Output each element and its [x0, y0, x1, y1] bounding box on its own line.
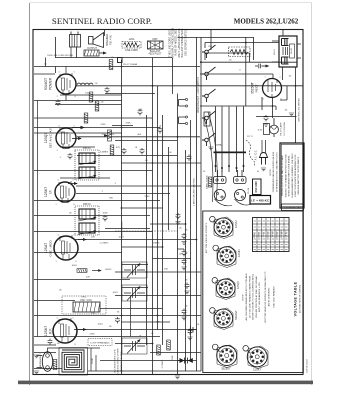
svg-text:OSC.: OSC. — [81, 297, 87, 299]
wavemagnet plug J1 — [37, 348, 101, 371]
IF transformer T3 (1st IF) — [75, 150, 99, 180]
wire power tube top — [34, 47, 71, 74]
svg-text:50L6GT: 50L6GT — [44, 78, 48, 90]
tube V4 50L6GT power output — [56, 73, 76, 95]
svg-text:1: 1 — [223, 219, 224, 221]
ground under C12 — [187, 337, 192, 340]
wire curves to gang — [204, 112, 217, 202]
svg-text:SENTINEL RADIO CORP.: SENTINEL RADIO CORP. — [52, 16, 152, 26]
svg-text:OTHERWISE NOTED. SEE PARTS LIS: OTHERWISE NOTED. SEE PARTS LIST. — [275, 151, 278, 192]
resistor R8 — [95, 101, 99, 111]
svg-text:A.C.- D.C.: A.C.- D.C. — [255, 149, 258, 160]
svg-text:2: 2 — [230, 314, 231, 316]
svg-text:THIS LINE CORD SPLINE: THIS LINE CORD SPLINE — [47, 55, 73, 57]
resistor R9 — [109, 60, 113, 70]
svg-text:117 V.: 117 V. — [247, 136, 253, 138]
svg-text:8: 8 — [73, 204, 74, 206]
capacitor C4 — [68, 153, 73, 159]
svg-text:6: 6 — [217, 293, 218, 295]
svg-text:PILOT LAMP: PILOT LAMP — [280, 122, 283, 135]
chassis label box — [282, 204, 304, 211]
wire antenna section — [34, 353, 201, 372]
wire vertical right section — [211, 30, 296, 177]
volume control R2 — [104, 130, 112, 141]
svg-text:15K: 15K — [164, 269, 168, 271]
svg-text:22K: 22K — [91, 313, 95, 315]
svg-text:117 V. AC LINE. READINGS TAKEN: 117 V. AC LINE. READINGS TAKEN FROM — [248, 276, 251, 319]
svg-text:6: 6 — [215, 232, 216, 234]
svg-text:MODELS 262,LU262: MODELS 262,LU262 — [234, 18, 299, 26]
svg-text:1: 1 — [56, 150, 57, 152]
terminal block A — [118, 58, 123, 63]
wire cathode row — [60, 94, 122, 96]
gang trimmer T6 assembly — [234, 177, 253, 206]
svg-text:8: 8 — [248, 352, 249, 354]
svg-text:(BOTTOM VIEW OF CHASSIS): (BOTTOM VIEW OF CHASSIS) — [299, 285, 302, 314]
socket panel border — [203, 211, 303, 373]
resistor R3 — [157, 345, 161, 355]
svg-text:35Z5GT: 35Z5GT — [221, 367, 231, 371]
socket pin numbers — [215, 219, 266, 364]
svg-text:1: 1 — [226, 346, 227, 348]
svg-text:BOTTOM VIEWS OF SOCKETS SHOWN: BOTTOM VIEWS OF SOCKETS SHOWN ONLY TO — [265, 271, 267, 322]
svg-text:12SK7: 12SK7 — [237, 249, 241, 257]
svg-text:I.F.: I.F. — [49, 190, 53, 194]
ground under C13 — [175, 222, 180, 225]
svg-text:VOL. 1 MEG: VOL. 1 MEG — [102, 134, 115, 136]
svg-text:47K: 47K — [156, 321, 160, 323]
AVC bus dashed — [115, 230, 177, 232]
IF transformer T4 (2nd IF) — [75, 206, 99, 235]
svg-text:4: 4 — [230, 323, 231, 325]
text parts column bottom — [114, 348, 123, 374]
electrolytic C27 output filter — [178, 358, 193, 364]
svg-text:POWER: POWER — [49, 77, 53, 90]
svg-text:12SA7: 12SA7 — [234, 220, 238, 228]
capacitor C16 — [255, 64, 269, 69]
svg-text:8: 8 — [75, 261, 76, 263]
junction dots various — [121, 42, 297, 372]
svg-text:SEE SERVICE NOTES: SEE SERVICE NOTES — [184, 30, 187, 56]
output transformer T2 — [70, 32, 81, 48]
svg-text:NOTE:: NOTE: — [270, 168, 272, 175]
note text block top (line cord notes) — [168, 28, 187, 58]
svg-text:12SA7 . . .: 12SA7 . . . — [253, 229, 256, 238]
svg-text:L26A: L26A — [129, 38, 135, 41]
svg-text:470K: 470K — [100, 124, 106, 126]
wire heater string top — [34, 58, 200, 67]
capacitor C23 — [187, 155, 192, 161]
svg-text:4: 4 — [234, 261, 235, 263]
resistor R7 cathode — [89, 92, 93, 102]
svg-text:8: 8 — [215, 223, 216, 225]
svg-text:35Z5GT: 35Z5GT — [272, 230, 274, 238]
wire det row — [105, 228, 150, 230]
svg-text:R.F.: R.F. — [49, 328, 53, 334]
svg-text:PLATE V: PLATE V — [276, 229, 279, 237]
svg-text:5: 5 — [72, 180, 73, 182]
ground bottom-2 — [34, 371, 39, 374]
voltage table header text — [253, 229, 288, 238]
arrow signal V1 — [74, 239, 86, 241]
ground under C10 — [184, 291, 189, 294]
svg-text:12SQ7 .: 12SQ7 . — [263, 230, 265, 237]
svg-text:RECT.: RECT. — [255, 84, 259, 93]
svg-text:UNLESS NOTED OTHER: UNLESS NOTED OTHER — [118, 348, 120, 374]
svg-text:8: 8 — [217, 284, 218, 286]
resistor R14 — [84, 113, 88, 123]
wire vertical stubs top — [46, 30, 105, 101]
electrolytic filter C20 multi-section — [272, 36, 301, 67]
wire loop right verticals — [91, 348, 96, 371]
arrow AVC to V3 — [72, 138, 81, 140]
tube V5 12SK7 RF amplifier — [53, 318, 77, 343]
tube V6 35Z5GT rectifier — [263, 79, 282, 98]
svg-text:25-7A: 25-7A — [247, 188, 250, 194]
svg-text:6: 6 — [248, 362, 249, 364]
svg-text:CAPACITY IN MFD: CAPACITY IN MFD — [120, 351, 123, 370]
tube socket S2 12SK7 — [213, 245, 236, 267]
svg-text:X AC VOLT READING: X AC VOLT READING — [273, 286, 276, 308]
capacitor C25 — [103, 215, 108, 221]
svg-text:3: 3 — [262, 99, 263, 101]
capacitor C26 cathode bypass — [56, 100, 61, 106]
svg-text:470K: 470K — [172, 355, 174, 361]
svg-text:.0001: .0001 — [71, 265, 77, 267]
svg-text:INPUT. ALL READINGS ± 20%: INPUT. ALL READINGS ± 20% — [258, 282, 261, 312]
capacitor C21 — [122, 148, 127, 154]
svg-text:1: 1 — [257, 348, 258, 350]
svg-text:2: 2 — [234, 351, 235, 353]
resistor R13 loop series — [53, 360, 57, 370]
resistor R12 — [110, 145, 114, 155]
svg-text:8: 8 — [74, 96, 75, 98]
svg-text:.0001: .0001 — [97, 324, 103, 326]
B minus bus — [37, 101, 39, 337]
svg-text:WAVEMAGNET: WAVEMAGNET — [39, 353, 42, 369]
svg-text:CHASSIS AND PART NUMBERS. USE: CHASSIS AND PART NUMBERS. USE ONLY — [291, 153, 294, 198]
svg-text:LOOP: LOOP — [92, 357, 94, 364]
wire IF section — [34, 178, 201, 216]
svg-text:4: 4 — [265, 362, 266, 364]
ballast resistor R11 — [148, 41, 164, 49]
ground bottom-1 — [34, 355, 39, 358]
loop antenna L1 spiral — [62, 350, 84, 372]
loop antenna L1 frame — [59, 348, 88, 376]
svg-text:EXACT DUPLICATE REPLACEMENTS O: EXACT DUPLICATE REPLACEMENTS OF — [294, 154, 297, 197]
svg-text:2: 2 — [279, 77, 280, 79]
svg-text:2: 2 — [230, 223, 231, 225]
svg-text:455 KC: 455 KC — [83, 147, 91, 150]
svg-text:4: 4 — [230, 232, 231, 234]
paper noise — [30, 4, 311, 380]
misc small value labels scattered — [47, 55, 259, 369]
svg-text:BOTTOM VIEW OF SOCKETS: BOTTOM VIEW OF SOCKETS — [206, 222, 208, 253]
svg-text:CATH. V: CATH. V — [285, 230, 288, 238]
svg-text:LINE CORD: LINE CORD — [125, 49, 138, 52]
svg-text:4: 4 — [233, 293, 234, 295]
svg-text:8: 8 — [215, 314, 216, 316]
svg-text:47K: 47K — [116, 147, 120, 149]
svg-text:2: 2 — [233, 284, 234, 286]
voltage table cell figures — [254, 221, 288, 250]
svg-text:12SQ7: 12SQ7 — [44, 133, 48, 144]
ground switch — [208, 147, 213, 150]
tube V2 12SK7 IF amplifier — [55, 181, 75, 203]
svg-text:2.2 MEG: 2.2 MEG — [162, 359, 164, 368]
svg-text:NOTE:: NOTE: — [243, 293, 245, 300]
svg-text:12SA7: 12SA7 — [44, 243, 48, 253]
oscillator coil L4 — [73, 302, 100, 312]
svg-text:WHEN ORDERING PARTS GIVE MODEL: WHEN ORDERING PARTS GIVE MODEL, — [288, 154, 291, 196]
svg-text:DET.-A.V.C.-A.F.: DET.-A.V.C.-A.F. — [49, 128, 53, 149]
svg-text:1: 1 — [56, 96, 57, 98]
svg-text:LOOP TERMINALS: LOOP TERMINALS — [90, 341, 110, 344]
svg-text:5: 5 — [72, 318, 73, 320]
svg-text:1 MEG: 1 MEG — [153, 243, 160, 245]
svg-text:P.M. 4 IN.: P.M. 4 IN. — [110, 35, 113, 46]
arrow output coupling — [72, 127, 84, 129]
tube socket S1 12SA7 — [210, 216, 233, 238]
wavemagnet switch contacts mid — [179, 98, 188, 124]
capacitor C10 bypass — [185, 283, 190, 289]
tube socket S4 50L6GT — [210, 308, 233, 330]
svg-text:4: 4 — [57, 180, 58, 182]
inductor L6 plate choke — [77, 83, 93, 85]
notes box right bordered — [280, 143, 304, 208]
svg-text:220K: 220K — [89, 334, 95, 336]
svg-text:ALL RESISTORS 1/2 W: ALL RESISTORS 1/2 W — [114, 348, 117, 372]
capacitor C14 — [264, 115, 269, 121]
svg-text:220K: 220K — [144, 196, 150, 198]
capacitor C5 — [158, 127, 163, 133]
capacitor C28 padder — [115, 317, 120, 323]
ground near can — [289, 113, 294, 116]
oscillator coil enclosure — [62, 296, 106, 314]
svg-text:12SQ7: 12SQ7 — [236, 280, 240, 289]
wire converter section — [34, 224, 201, 296]
svg-text:100K: 100K — [102, 213, 108, 215]
resistor R6 osc grid — [77, 269, 87, 273]
resistor R5 — [208, 177, 212, 187]
IF alignment label box — [250, 179, 271, 204]
svg-text:8: 8 — [218, 351, 219, 353]
wire vertical main buses — [122, 37, 202, 374]
capacitor C12 bypass — [188, 329, 193, 335]
svg-text:2: 2 — [234, 252, 235, 254]
svg-text:AID IN CHECKING: AID IN CHECKING — [267, 287, 270, 306]
tube pin number texts — [54, 72, 281, 347]
svg-text:1 MEG VOLUME CONTROL: 1 MEG VOLUME CONTROL — [193, 177, 195, 206]
tube V1 12SA7 osc-mod converter — [54, 235, 78, 260]
tube socket S6 loktal — [243, 346, 268, 369]
resistor R10 line cord — [122, 42, 141, 49]
svg-text:1: 1 — [226, 247, 227, 249]
svg-text:6: 6 — [218, 261, 219, 263]
svg-text:1: 1 — [225, 280, 226, 282]
wire B+ line — [76, 86, 303, 94]
wire dial lamp drop — [130, 296, 132, 337]
ground under C8 — [181, 242, 186, 245]
svg-text:12SK7: 12SK7 — [44, 187, 48, 197]
schematic outer border — [33, 30, 303, 375]
resistor R4 — [167, 340, 171, 350]
tube socket S5 35Z5GT — [212, 344, 237, 367]
tube V3 12SQ7 det-avc-af — [56, 127, 76, 149]
svg-text:SCREEN: SCREEN — [281, 229, 283, 238]
svg-text:5: 5 — [73, 235, 74, 237]
capacitor C9 bypass — [182, 259, 187, 265]
svg-text:WAVEMAGNET - LOOP SWITCH: WAVEMAGNET - LOOP SWITCH — [197, 77, 200, 113]
ground under C11 — [181, 317, 186, 320]
switch S1 wafer contacts — [202, 45, 216, 146]
line cord squiggle — [246, 140, 255, 166]
svg-text:VOLUME CONTROL AT MAX. NO SIGN: VOLUME CONTROL AT MAX. NO SIGNAL — [255, 275, 258, 318]
extra value labels texture — [43, 46, 292, 345]
svg-text:4: 4 — [56, 318, 57, 320]
svg-text:GANG COND.: GANG COND. — [206, 175, 209, 189]
pilot lamp I1 — [264, 118, 279, 137]
svg-text:.0001: .0001 — [118, 237, 124, 239]
svg-text:2.2 MEG: 2.2 MEG — [100, 243, 109, 245]
svg-text:GENUINE FACTORY TESTED PARTS.: GENUINE FACTORY TESTED PARTS. — [297, 156, 300, 195]
svg-text:VOLTAGE TABLE: VOLTAGE TABLE — [294, 281, 298, 316]
svg-text:4: 4 — [234, 361, 235, 363]
svg-text:1: 1 — [55, 261, 56, 263]
arrow output — [100, 52, 107, 54]
svg-text:I.F. = 455 KC: I.F. = 455 KC — [251, 198, 269, 202]
junction dots gang wires — [214, 152, 247, 170]
svg-text:8: 8 — [74, 344, 75, 346]
svg-text:4: 4 — [57, 235, 58, 237]
svg-text:ALL VOLTAGES MEASURED WITH VTV: ALL VOLTAGES MEASURED WITH VTVM AND — [245, 273, 248, 320]
speaker SP — [89, 33, 104, 48]
tube socket S3 12SQ7 — [212, 278, 235, 300]
svg-text:470K: 470K — [125, 123, 131, 125]
svg-text:6.3V: 6.3V — [258, 129, 263, 131]
svg-text:5: 5 — [73, 72, 74, 74]
svg-text:12SK7 . .: 12SK7 . . — [259, 230, 261, 238]
wire heater returns — [34, 101, 160, 134]
wire bottom left row — [34, 344, 56, 346]
svg-text:8: 8 — [218, 252, 219, 254]
capacitor C29 bypass — [178, 249, 185, 250]
svg-text:6: 6 — [218, 361, 219, 363]
svg-text:2: 2 — [265, 352, 266, 354]
small box right of switch — [204, 112, 210, 126]
capacitor C13 — [176, 213, 181, 219]
wire RF section — [34, 301, 201, 344]
svg-text:SPEAKER: SPEAKER — [105, 34, 109, 46]
arrow signal V5 — [74, 329, 86, 331]
svg-text:7: 7 — [264, 77, 265, 79]
gang trimmer T5 assembly — [214, 177, 233, 206]
ground plug — [261, 168, 266, 171]
notes plain column — [270, 151, 278, 192]
svg-text:.00025: .00025 — [105, 269, 112, 271]
svg-text:CONDENSER VALUES IN MFD UNLESS: CONDENSER VALUES IN MFD UNLESS — [272, 151, 275, 192]
variable capacitor C1 tuning — [122, 262, 147, 278]
svg-text:150T: 150T — [152, 38, 158, 41]
svg-text:4: 4 — [58, 72, 59, 74]
svg-text:10K: 10K — [91, 237, 95, 239]
wire audio section — [34, 137, 201, 171]
svg-text:50L6GT .: 50L6GT . — [268, 230, 270, 238]
svg-text:PILOT 150MA: PILOT 150MA — [123, 63, 137, 66]
svg-text:6.3 V 150 MA: 6.3 V 150 MA — [283, 122, 286, 136]
variable capacitor C3 RF tuning — [122, 338, 147, 354]
AC plug P1 — [260, 140, 268, 165]
svg-text:1: 1 — [223, 310, 224, 312]
ground mid bottom — [175, 376, 180, 379]
svg-text:45Z3 PILOT: 45Z3 PILOT — [148, 53, 162, 56]
svg-text:SUBJECT TO CHANGE WITHOUT NOTI: SUBJECT TO CHANGE WITHOUT NOTICE. — [284, 153, 287, 197]
arrow osc — [92, 270, 101, 272]
on-off switch dashed box — [229, 47, 251, 57]
svg-text:50L6GT: 50L6GT — [234, 310, 238, 320]
svg-text:455 KC: 455 KC — [83, 203, 91, 206]
electrolytic output cap C18 — [188, 326, 197, 333]
capacitor C8 bypass — [182, 233, 187, 239]
capacitor C22 — [140, 148, 145, 154]
field coil L5 hatched box — [84, 50, 99, 56]
svg-text:6: 6 — [215, 323, 216, 325]
capacitor C7 — [105, 87, 110, 93]
svg-text:.0001: .0001 — [112, 292, 118, 294]
svg-text:OUTPUT: OUTPUT — [87, 47, 97, 50]
svg-text:SENTINEL 262 SERIES: SENTINEL 262 SERIES — [299, 98, 301, 122]
capacitor C11 bypass — [182, 309, 187, 315]
svg-text:OSC.- MOD.: OSC.- MOD. — [49, 239, 53, 256]
svg-text:150 V.: 150 V. — [274, 49, 276, 56]
svg-text:OSC. COIL: OSC. COIL — [80, 299, 93, 302]
arrow signal V2 — [68, 183, 77, 185]
svg-text:12SK7: 12SK7 — [253, 368, 261, 372]
svg-text:OSC 1620: OSC 1620 — [255, 181, 258, 193]
variable capacitor C2 tuning — [122, 285, 147, 301]
wire top-right section — [178, 37, 297, 116]
svg-text:40-40: 40-40 — [291, 47, 293, 53]
ground under C14 — [263, 124, 268, 127]
socket panel notes text — [243, 271, 276, 322]
svg-text:3.3MEG: 3.3MEG — [100, 152, 108, 154]
svg-text:150MA: 150MA — [215, 143, 222, 146]
ground under C9 — [181, 267, 186, 270]
voltage table grid — [253, 218, 290, 252]
capacitor C24 — [48, 339, 53, 345]
wavemagnet terminal box — [88, 339, 112, 346]
svg-text:524 VE 24-52: 524 VE 24-52 — [307, 359, 309, 373]
capacitor C6 — [138, 109, 143, 115]
svg-text:12SK7: 12SK7 — [44, 326, 48, 336]
svg-text:22K: 22K — [86, 277, 90, 279]
svg-text:PRICES QUOTED IN PARTS LISTS A: PRICES QUOTED IN PARTS LISTS ARE — [281, 155, 284, 196]
svg-text:1: 1 — [55, 204, 56, 206]
svg-text:SOCKET CONTACTS TO B- (COMMON: SOCKET CONTACTS TO B- (COMMON NEG.) — [252, 274, 255, 320]
